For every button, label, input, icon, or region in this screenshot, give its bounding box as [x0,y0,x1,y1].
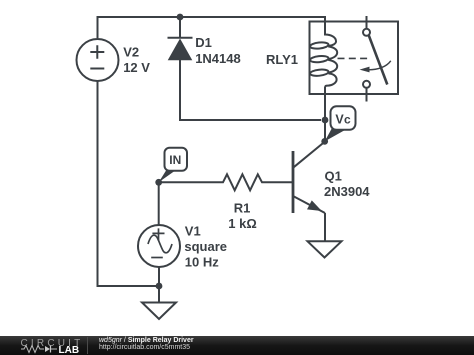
svg-text:V2: V2 [123,45,139,60]
junction dot top rail/diode [177,14,184,21]
relay RLY1 box [310,22,399,95]
relay switch top contact [363,29,370,36]
relay switch bottom contact [363,81,370,88]
relay actuation arrow [368,61,391,70]
V1 plus [152,228,164,240]
wire diode to Vc net [180,60,321,121]
ground emitter [308,241,342,257]
svg-text:10 Hz: 10 Hz [185,255,219,270]
wire coil bottom to Vc node [324,87,326,142]
junction dot IN [155,179,162,186]
relay switch bottom terminal stub [366,88,368,102]
diode D1 [168,38,193,60]
wire IN node to resistor [159,181,219,183]
svg-text:Q1: Q1 [325,168,342,183]
svg-text:c: c [344,113,351,127]
junction dot Vc lower [321,138,328,145]
svg-text:R1: R1 [234,201,251,216]
wire top rail from V2 to relay coil [98,17,326,38]
V1 sine symbol [148,235,172,253]
svg-text:RLY1: RLY1 [266,52,298,67]
wire IN node to V1 [158,182,160,225]
V2 minus sign [90,68,104,70]
wire base from resistor [266,181,294,183]
V2 plus sign [90,45,104,59]
relay switch blade [369,35,388,84]
wire V1 bottom [158,267,160,302]
voltage source V2 [77,39,119,81]
svg-text:LAB: LAB [59,345,80,354]
V1 minus [151,257,163,259]
junction dot Vc upper [322,117,329,124]
relay switch top terminal stub [366,16,368,29]
wire left rail V2 bottom to ground net [98,81,157,286]
svg-text:IN: IN [169,153,181,167]
relay coil L [310,17,337,87]
svg-text:2N3904: 2N3904 [324,184,370,199]
wire diode branch vertical top [179,17,181,38]
svg-text:V1: V1 [185,224,201,239]
svg-text:D1: D1 [195,35,212,50]
node IN flag [159,148,187,183]
footer bar [0,336,474,355]
svg-text:1 kΩ: 1 kΩ [228,216,256,231]
wire emitter down [324,213,326,241]
junction dot ground net [156,283,163,290]
voltage source V1 [138,225,180,267]
transistor Q1 [293,151,325,213]
logo CIRCUIT [21,340,84,348]
wire collector to Vc node [293,142,325,168]
node Vc flag [325,106,356,141]
resistor R1 [219,174,266,190]
svg-text:1N4148: 1N4148 [195,51,241,66]
svg-text:12 V: 12 V [123,60,150,75]
logo LAB with resistor/diode glyphs [21,344,91,354]
svg-text:square: square [184,239,227,254]
ground bottom [142,303,176,320]
relay actuation dashed link [338,57,370,59]
